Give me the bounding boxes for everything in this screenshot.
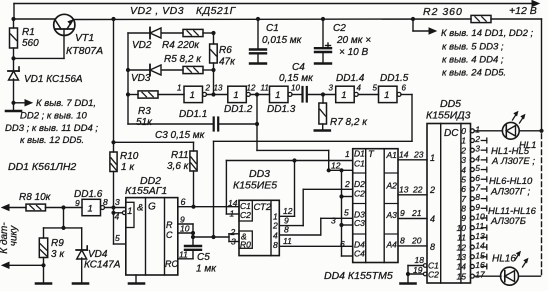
svg-text:КС147А: КС147А <box>84 260 121 271</box>
svg-text:R5 8,2 к: R5 8,2 к <box>164 54 202 65</box>
svg-text:1: 1 <box>384 90 389 101</box>
svg-text:R0: R0 <box>240 240 251 250</box>
svg-text:RC: RC <box>165 259 178 269</box>
svg-text:2: 2 <box>344 179 350 189</box>
svg-text:1: 1 <box>275 90 280 101</box>
svg-text:1: 1 <box>233 90 238 101</box>
svg-text:1: 1 <box>88 203 93 214</box>
svg-text:11: 11 <box>457 233 466 243</box>
svg-text:R9: R9 <box>51 238 64 249</box>
svg-text:VD1 КС156А: VD1 КС156А <box>24 74 83 85</box>
svg-text:G: G <box>148 202 156 213</box>
svg-text:3: 3 <box>461 155 466 165</box>
svg-text:6: 6 <box>461 184 466 194</box>
svg-text:VD4: VD4 <box>88 249 108 260</box>
svg-text:5: 5 <box>475 163 480 173</box>
svg-text:13: 13 <box>214 84 223 93</box>
svg-text:0: 0 <box>461 126 466 136</box>
svg-text:2: 2 <box>460 145 466 155</box>
svg-text:DD4 К155ТМ5: DD4 К155ТМ5 <box>324 270 393 282</box>
svg-text:14: 14 <box>228 198 238 208</box>
svg-text:R6: R6 <box>219 45 232 56</box>
svg-text:9: 9 <box>475 202 480 212</box>
svg-text:D1: D1 <box>354 149 365 159</box>
svg-text:8: 8 <box>284 225 289 235</box>
svg-text:47к: 47к <box>219 57 236 68</box>
svg-text:5: 5 <box>344 208 349 218</box>
svg-text:DD1.5: DD1.5 <box>380 73 409 84</box>
svg-text:3,6 к: 3,6 к <box>167 161 190 172</box>
svg-text:10: 10 <box>291 84 300 93</box>
svg-text:10: 10 <box>180 224 190 234</box>
svg-text:6: 6 <box>402 84 407 93</box>
svg-text:HL6-HL10: HL6-HL10 <box>489 176 533 187</box>
svg-text:C4: C4 <box>354 249 365 259</box>
svg-text:+12 В: +12 В <box>509 5 537 17</box>
svg-text:12: 12 <box>331 161 341 171</box>
svg-text:C5: C5 <box>197 252 210 263</box>
svg-text:8: 8 <box>103 197 108 207</box>
svg-text:3: 3 <box>475 144 480 154</box>
svg-text:&: & <box>137 203 143 214</box>
svg-text:7: 7 <box>475 182 480 192</box>
svg-text:3: 3 <box>331 216 336 226</box>
svg-text:4: 4 <box>357 84 362 93</box>
svg-text:13: 13 <box>399 185 409 195</box>
svg-text:7: 7 <box>461 194 466 204</box>
svg-text:15: 15 <box>457 271 467 281</box>
svg-text:К155АГ1: К155АГ1 <box>125 185 167 197</box>
svg-text:DD1.3: DD1.3 <box>267 104 296 115</box>
svg-text:20: 20 <box>411 236 422 246</box>
svg-text:1: 1 <box>190 90 195 101</box>
svg-text:3: 3 <box>329 84 334 93</box>
svg-text:C1: C1 <box>266 23 279 34</box>
svg-text:10: 10 <box>457 223 467 233</box>
svg-text:11: 11 <box>261 84 269 93</box>
svg-text:12: 12 <box>457 242 467 252</box>
svg-text:8: 8 <box>400 236 405 246</box>
svg-text:К выв. 7 DD1,: К выв. 7 DD1, <box>36 98 96 109</box>
svg-text:12: 12 <box>283 206 293 216</box>
svg-text:C3: C3 <box>354 218 365 228</box>
svg-text:6: 6 <box>340 239 345 249</box>
svg-text:23: 23 <box>413 150 424 160</box>
svg-text:15: 15 <box>475 250 485 260</box>
svg-text:A2: A2 <box>386 181 398 191</box>
svg-text:R7 8,2 к: R7 8,2 к <box>330 117 368 128</box>
svg-text:13: 13 <box>475 231 485 241</box>
svg-text:3 к: 3 к <box>51 249 65 260</box>
svg-text:C2: C2 <box>428 270 439 280</box>
svg-text:1: 1 <box>475 124 480 134</box>
svg-text:R: R <box>166 220 173 230</box>
svg-text:R8 10к: R8 10к <box>19 192 52 203</box>
svg-text:К155ИД3: К155ИД3 <box>426 110 471 122</box>
svg-text:11: 11 <box>475 221 484 231</box>
svg-text:КД521Г: КД521Г <box>196 5 237 17</box>
svg-text:9: 9 <box>400 208 405 218</box>
svg-text:DD1.1: DD1.1 <box>179 109 207 120</box>
svg-text:АЛ307Г ;: АЛ307Г ; <box>490 187 531 198</box>
svg-text:51к: 51к <box>136 117 153 128</box>
svg-text:К выв. 14 DD1, DD2 ;: К выв. 14 DD1, DD2 ; <box>441 28 534 39</box>
svg-text:2: 2 <box>474 134 480 144</box>
svg-text:5: 5 <box>373 84 378 93</box>
svg-text:к выв. 24 DD5.: к выв. 24 DD5. <box>442 68 506 79</box>
svg-text:DD3 ; к выв. 11 DD4 ;: DD3 ; к выв. 11 DD4 ; <box>5 123 98 134</box>
svg-text:3: 3 <box>231 237 236 247</box>
svg-text:4: 4 <box>475 153 480 163</box>
svg-text:к выв. 4 DD4 ;: к выв. 4 DD4 ; <box>442 55 504 66</box>
svg-text:13: 13 <box>457 252 467 262</box>
svg-text:8: 8 <box>430 242 435 252</box>
svg-text:A3: A3 <box>386 210 398 220</box>
svg-text:14: 14 <box>399 150 409 160</box>
svg-text:A1: A1 <box>386 150 398 160</box>
svg-text:R10: R10 <box>120 151 139 162</box>
svg-text:560: 560 <box>22 38 39 49</box>
svg-text:0,15 мк: 0,15 мк <box>279 73 314 84</box>
svg-text:C2: C2 <box>333 23 346 34</box>
svg-text:АЛ307Б: АЛ307Б <box>490 216 526 227</box>
svg-text:к выв. 5 DD3 ;: к выв. 5 DD3 ; <box>442 42 504 53</box>
svg-text:DD5: DD5 <box>440 98 461 110</box>
svg-text:D2: D2 <box>354 179 365 189</box>
svg-text:VD2: VD2 <box>132 40 152 51</box>
svg-text:8: 8 <box>475 192 480 202</box>
svg-text:DC: DC <box>444 128 459 139</box>
svg-text:0,015 мк: 0,015 мк <box>262 35 303 46</box>
svg-text:C2: C2 <box>240 210 251 220</box>
svg-text:1: 1 <box>461 136 466 146</box>
svg-text:4: 4 <box>273 231 278 241</box>
svg-text:20 мк ×: 20 мк × <box>336 35 371 46</box>
svg-text:16: 16 <box>475 260 485 270</box>
svg-text:A4: A4 <box>386 240 398 250</box>
svg-text:1: 1 <box>177 84 181 93</box>
svg-text:1: 1 <box>127 206 132 217</box>
svg-text:9: 9 <box>461 213 466 223</box>
svg-text:2: 2 <box>429 185 435 195</box>
svg-text:2: 2 <box>230 227 236 237</box>
svg-text:12: 12 <box>247 84 256 93</box>
svg-text:5: 5 <box>461 174 466 184</box>
svg-text:22: 22 <box>412 185 423 195</box>
svg-text:1: 1 <box>430 153 435 163</box>
svg-text:К155ИЕ5: К155ИЕ5 <box>233 180 277 192</box>
svg-text:R2 360: R2 360 <box>423 6 463 18</box>
svg-text:4: 4 <box>461 165 466 175</box>
svg-text:6: 6 <box>475 173 480 183</box>
svg-text:R4 220к: R4 220к <box>162 40 200 51</box>
svg-text:2: 2 <box>272 221 278 231</box>
svg-text:14: 14 <box>475 241 485 251</box>
svg-text:R3: R3 <box>138 106 151 117</box>
svg-text:11: 11 <box>283 236 292 246</box>
svg-text:C4: C4 <box>292 62 305 73</box>
svg-text:чику: чику <box>9 225 20 246</box>
svg-text:8: 8 <box>461 204 466 214</box>
svg-text:9: 9 <box>75 198 80 208</box>
svg-text:5: 5 <box>115 233 120 243</box>
svg-text:3: 3 <box>115 197 120 207</box>
svg-text:HL16: HL16 <box>492 254 516 265</box>
svg-text:C: C <box>166 230 173 240</box>
svg-text:18: 18 <box>415 255 425 265</box>
svg-text:СТ2: СТ2 <box>254 202 272 213</box>
svg-text:8: 8 <box>273 240 278 250</box>
svg-text:21: 21 <box>411 208 422 218</box>
svg-text:4: 4 <box>115 212 120 222</box>
svg-text:C3 0,15 мк: C3 0,15 мк <box>155 130 206 141</box>
svg-text:C2: C2 <box>354 189 365 199</box>
svg-text:4: 4 <box>430 214 435 224</box>
svg-text:DD1.2: DD1.2 <box>224 104 253 115</box>
svg-text:DD3: DD3 <box>249 168 270 180</box>
svg-text:VD3: VD3 <box>131 73 151 84</box>
svg-text:14: 14 <box>457 262 467 272</box>
svg-text:C1: C1 <box>354 159 365 169</box>
svg-text:КТ807А: КТ807А <box>66 45 103 57</box>
svg-text:1: 1 <box>341 90 346 101</box>
svg-text:А Л307Е ;: А Л307Е ; <box>491 156 535 167</box>
svg-text:1 к: 1 к <box>121 162 135 173</box>
svg-text:DD1.4: DD1.4 <box>336 73 365 84</box>
svg-text:1 мк: 1 мк <box>196 264 217 275</box>
svg-text:11: 11 <box>179 250 188 260</box>
svg-text:VT1: VT1 <box>75 32 94 44</box>
svg-text:T: T <box>368 149 375 160</box>
svg-text:VD2 , VD3: VD2 , VD3 <box>130 5 184 17</box>
svg-text:DD2 ; к выв. 10: DD2 ; к выв. 10 <box>20 111 88 122</box>
svg-text:1: 1 <box>345 149 350 159</box>
svg-text:6: 6 <box>181 197 186 207</box>
svg-text:2: 2 <box>205 84 211 93</box>
svg-text:R11: R11 <box>171 150 189 161</box>
svg-text:× 10 В: × 10 В <box>339 47 369 58</box>
svg-text:к выв. 12 DD5.: к выв. 12 DD5. <box>20 135 84 146</box>
svg-text:R1: R1 <box>22 27 35 38</box>
svg-text:17: 17 <box>475 270 485 280</box>
svg-text:10: 10 <box>475 212 485 222</box>
svg-text:DD1 К561ЛН2: DD1 К561ЛН2 <box>8 161 76 173</box>
